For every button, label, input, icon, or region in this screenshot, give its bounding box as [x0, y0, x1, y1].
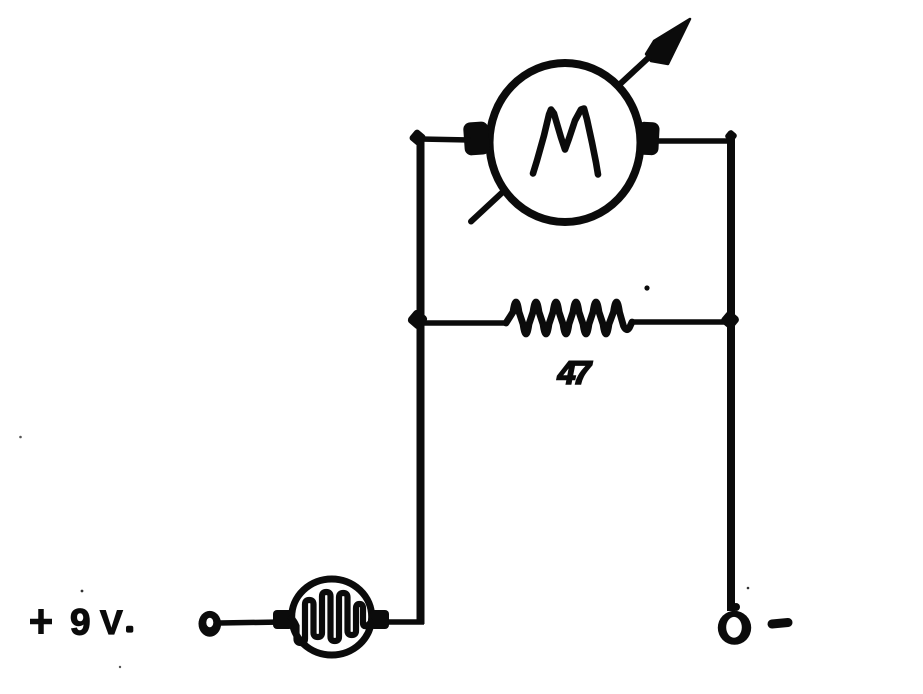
ink speck left margin — [19, 436, 22, 439]
node D junction dot (right, resistor row) — [719, 309, 740, 330]
ink speck near negative terminal — [747, 587, 750, 590]
positive supply terminal ring — [199, 611, 222, 637]
svg-text:V: V — [100, 604, 123, 642]
ink speck below label — [119, 666, 121, 668]
node A junction dot (top left) — [408, 128, 426, 146]
svg-text:9: 9 — [70, 602, 91, 643]
motor M1 body circle — [490, 63, 641, 222]
lamp/LDR body circle — [292, 579, 372, 655]
motor right brush terminal — [636, 121, 660, 155]
wire: resistor R1 to right bus — [630, 319, 734, 325]
node B junction dot (top right) — [724, 129, 738, 143]
lamp filament squiggle — [291, 592, 371, 643]
wire: left bus to resistor R1 — [418, 320, 508, 326]
wire: right vertical bus — [727, 138, 735, 611]
ink speck above label — [81, 590, 84, 593]
wire: left vertical bus — [417, 136, 425, 624]
wire: motor right brush to node B — [656, 138, 733, 144]
wire: positive terminal to lamp LDR1 — [219, 622, 282, 623]
wire: lamp to left bus corner — [386, 619, 424, 625]
lamp left terminal block — [273, 610, 293, 629]
negative sign label — [772, 623, 788, 625]
ink speck near resistor — [644, 285, 649, 290]
motor letter M — [533, 109, 598, 175]
motor speed-adjust arrowhead — [646, 19, 690, 64]
resistor R1 zigzag — [506, 302, 632, 334]
lamp right terminal block — [370, 610, 389, 629]
wire: node A to motor left brush — [420, 139, 470, 140]
label plus sign of + 9 V. — [30, 619, 52, 625]
motor left brush terminal — [463, 121, 490, 156]
motor speed-adjust arrow shaft (lower tail) — [471, 189, 506, 222]
svg-text:47: 47 — [557, 354, 593, 391]
negative supply terminal ring — [718, 611, 751, 645]
node C junction dot (left, resistor row) — [406, 308, 429, 331]
motor speed-adjust arrow shaft (upper part) — [619, 47, 660, 85]
